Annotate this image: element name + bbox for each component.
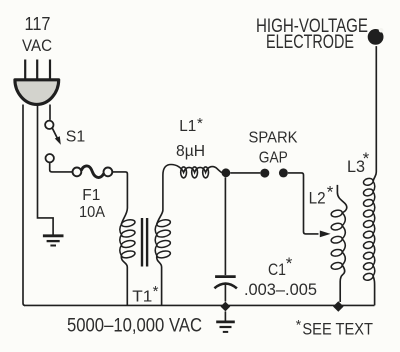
svg-text:*: * bbox=[197, 115, 203, 132]
wire node A to spark gap bbox=[230, 172, 260, 174]
svg-text:C1: C1 bbox=[268, 261, 286, 279]
node A junction dot bbox=[222, 168, 231, 177]
wire F1 to T1 primary bbox=[112, 172, 127, 208]
inductor L1 bbox=[163, 115, 222, 210]
svg-text:L2: L2 bbox=[309, 189, 326, 208]
ground (mains earth) bbox=[43, 236, 64, 246]
wire spark gap to L2 tap bbox=[288, 173, 319, 234]
svg-text:*: * bbox=[296, 317, 302, 333]
node B junction dot bbox=[333, 301, 344, 312]
svg-text:8µH: 8µH bbox=[176, 143, 205, 160]
fuse F1 bbox=[73, 166, 113, 221]
svg-text:S1: S1 bbox=[66, 129, 86, 146]
spark gap bbox=[249, 130, 298, 178]
svg-text:L1: L1 bbox=[179, 118, 196, 135]
wire electrode down to L3 bbox=[375, 46, 377, 172]
ground (C1) bbox=[216, 311, 235, 332]
svg-text:ELECTRODE: ELECTRODE bbox=[266, 31, 354, 53]
svg-text:*: * bbox=[327, 183, 334, 202]
plug P1 bbox=[15, 60, 59, 105]
transformer T1 bbox=[120, 208, 171, 306]
svg-text:117: 117 bbox=[25, 14, 51, 34]
wire S1 to F1 bbox=[50, 163, 73, 172]
coil L3 bbox=[347, 149, 376, 305]
wire plug right to S1 bbox=[49, 105, 51, 120]
wire bottom rail bbox=[24, 304, 375, 306]
switch S1 bbox=[45, 121, 85, 163]
node C junction dot bbox=[221, 302, 231, 312]
svg-text:*: * bbox=[363, 149, 370, 168]
wire plug middle to ground bbox=[38, 105, 54, 235]
svg-text:SEE TEXT: SEE TEXT bbox=[302, 321, 373, 339]
svg-text:*: * bbox=[286, 254, 293, 273]
coil L2 bbox=[309, 183, 347, 303]
svg-text:.003–.005: .003–.005 bbox=[244, 281, 317, 299]
tap arrow bbox=[320, 231, 331, 238]
svg-text:GAP: GAP bbox=[259, 150, 288, 167]
capacitor C1 bbox=[214, 177, 317, 301]
svg-text:VAC: VAC bbox=[22, 37, 52, 55]
svg-text:10A: 10A bbox=[79, 204, 105, 221]
svg-text:5000–10,000 VAC: 5000–10,000 VAC bbox=[67, 315, 202, 336]
svg-text:*: * bbox=[153, 283, 159, 300]
electrode ball bbox=[368, 28, 384, 45]
wire plug left to bottom rail bbox=[23, 105, 25, 306]
svg-text:T1: T1 bbox=[132, 289, 152, 306]
svg-text:SPARK: SPARK bbox=[249, 130, 298, 147]
svg-text:F1: F1 bbox=[82, 187, 100, 204]
